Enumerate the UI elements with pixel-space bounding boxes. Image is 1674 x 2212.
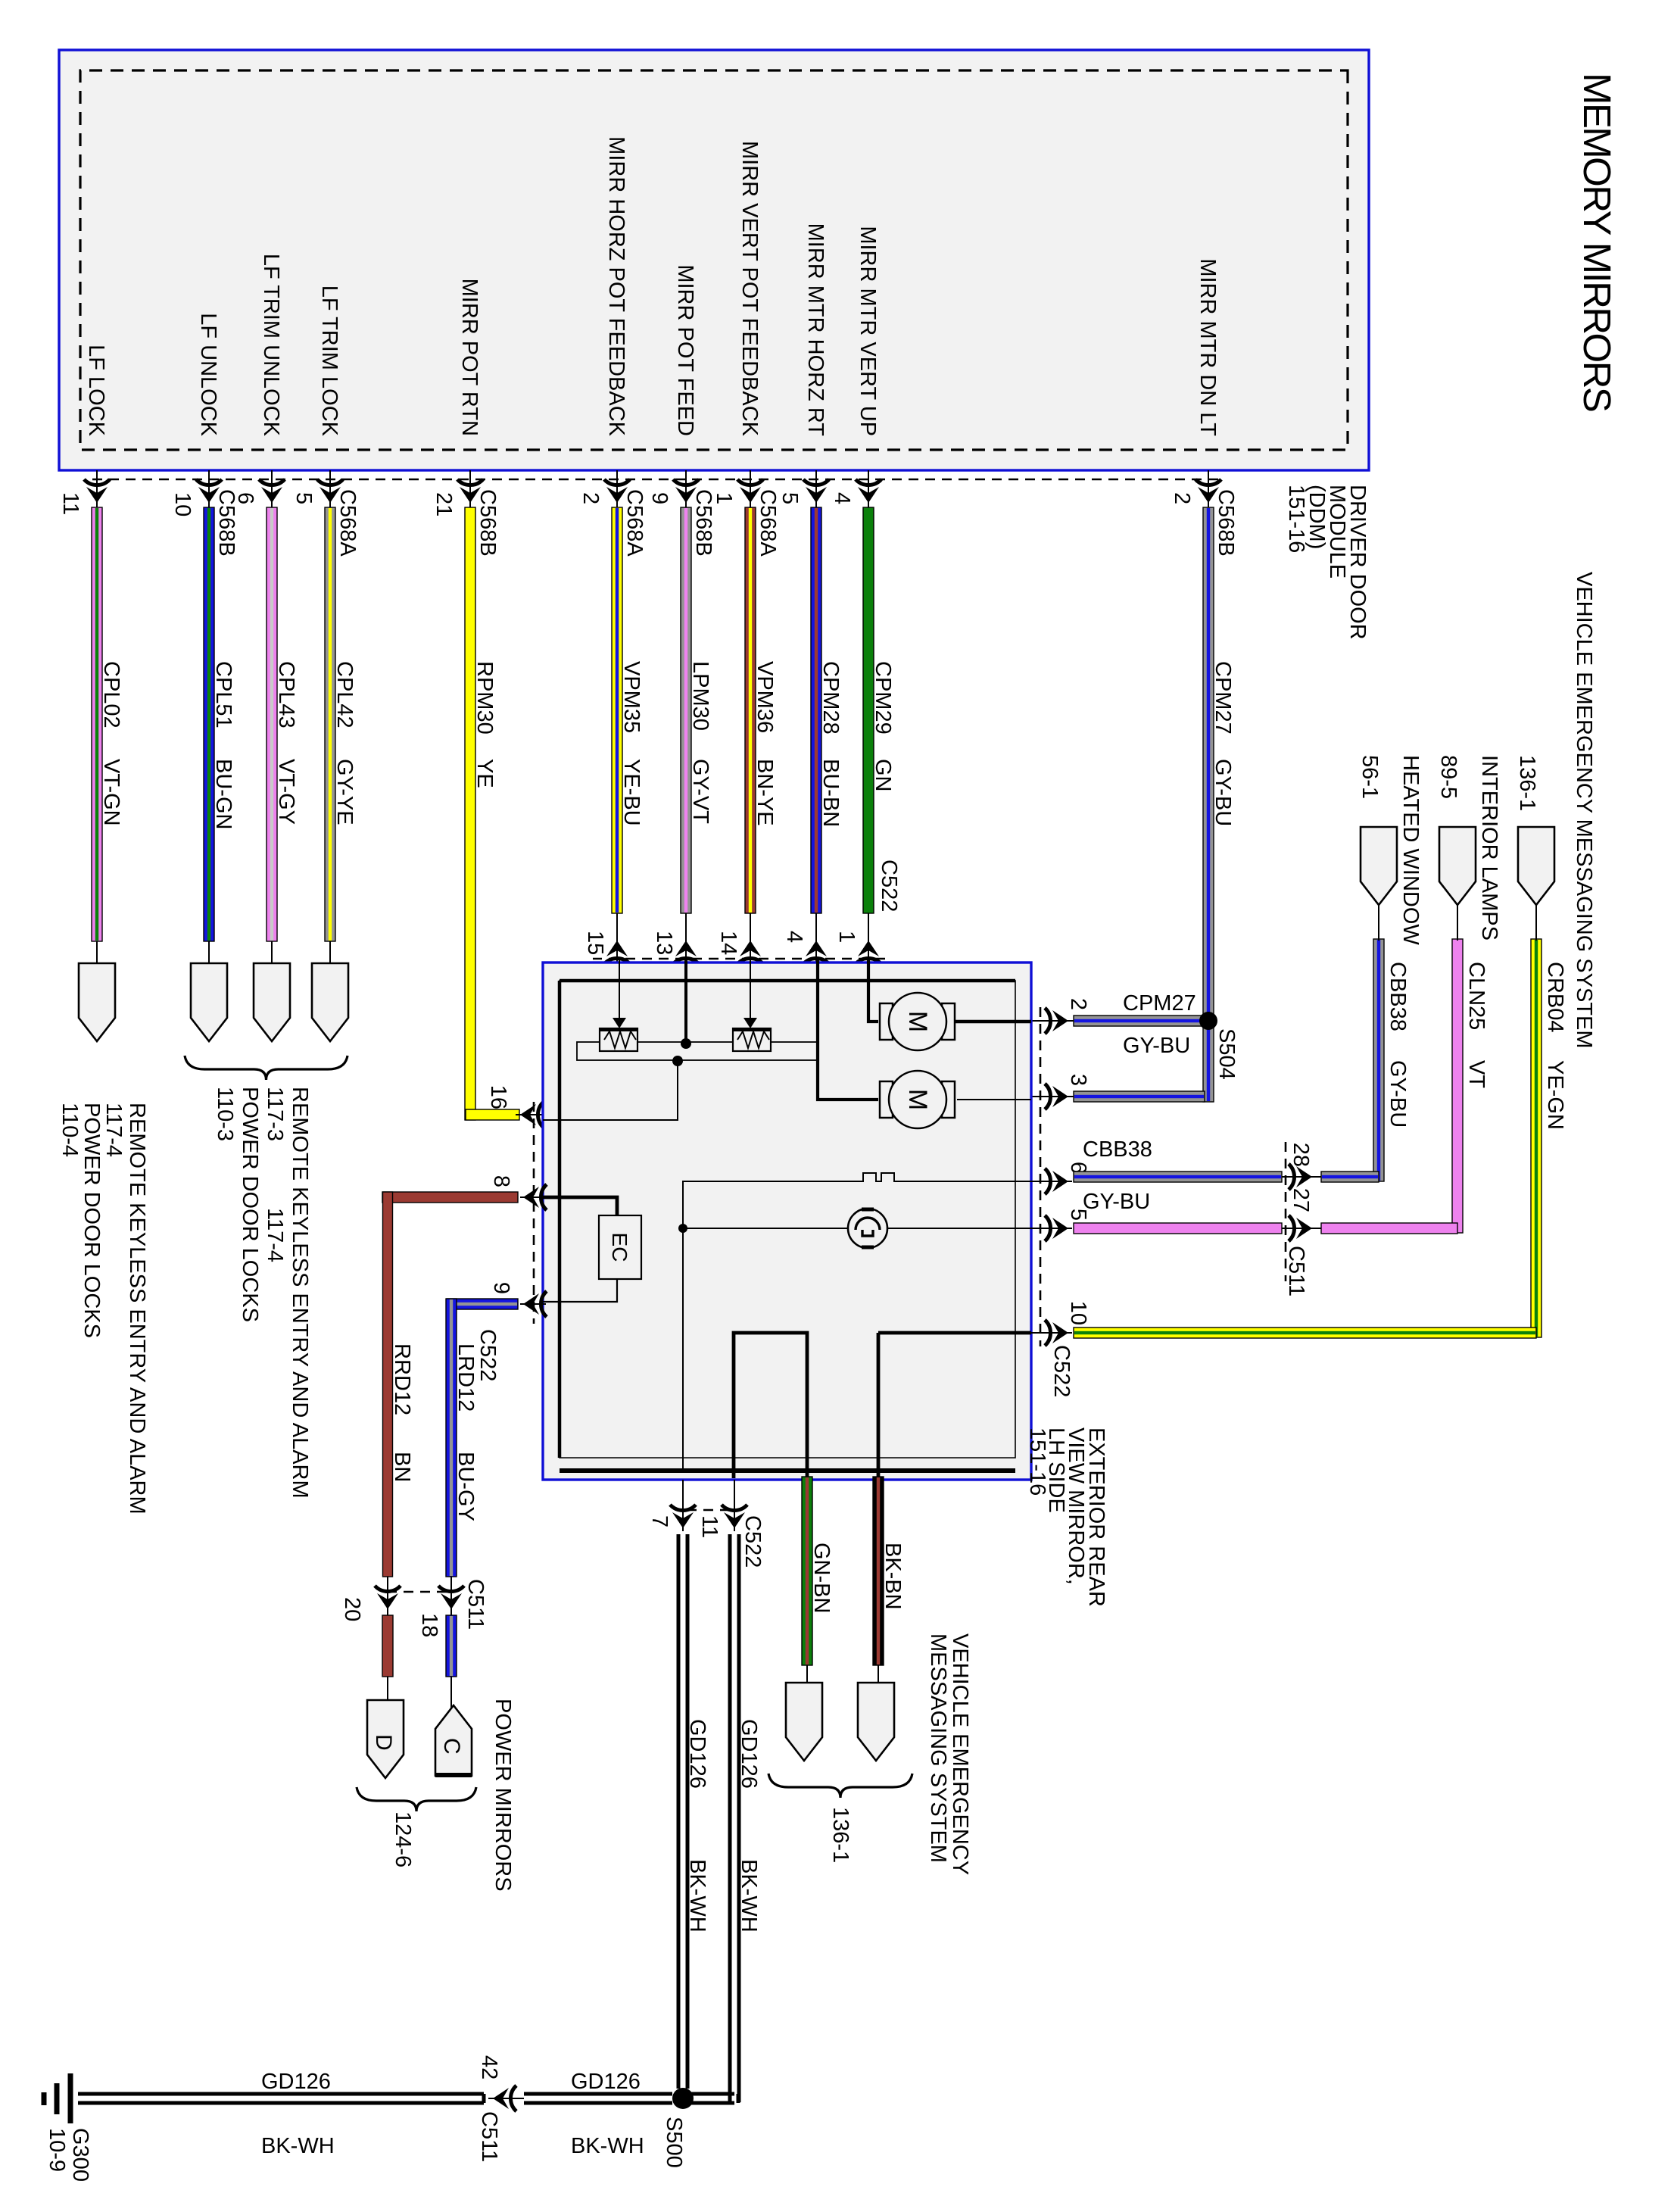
svg-text:GN-BN: GN-BN xyxy=(809,1543,834,1613)
svg-text:117-4: 117-4 xyxy=(101,1103,126,1157)
wire GD126 BK-WH from pin 7 to S500 xyxy=(686,1534,690,2089)
wire CBB38 GY-BU (heated window to mirror pin 6) xyxy=(1074,939,1384,1190)
svg-text:D: D xyxy=(371,1734,396,1751)
resistor R2 (horz pot) xyxy=(733,1028,771,1051)
mirror pin 8 arrow xyxy=(520,1196,543,1198)
DDM pin 5 (LF TRIM LOCK) xyxy=(291,285,360,557)
svg-text:REMOTE KEYLESS ENTRY AND ALARM: REMOTE KEYLESS ENTRY AND ALARM xyxy=(125,1103,149,1515)
svg-text:15: 15 xyxy=(583,931,607,955)
splice S500 xyxy=(672,2088,694,2109)
svg-text:GY-BU: GY-BU xyxy=(1386,1060,1410,1128)
svg-text:42: 42 xyxy=(477,2055,501,2079)
connector C xyxy=(435,1705,472,1776)
junction lamp to ground line xyxy=(678,1224,687,1233)
svg-text:VT-GY: VT-GY xyxy=(274,759,298,825)
svg-text:C568B: C568B xyxy=(691,489,715,557)
svg-text:2: 2 xyxy=(1170,492,1194,504)
VEMS connector terminal (BK-BN) xyxy=(858,1683,894,1761)
motor M (vert) xyxy=(880,993,955,1050)
svg-text:CPL42: CPL42 xyxy=(332,661,357,728)
connector terminal for CPL51 xyxy=(191,963,227,1041)
C511 break arrow on GD126 xyxy=(488,2098,524,2099)
svg-text:CBB38: CBB38 xyxy=(1083,1137,1152,1162)
svg-text:20: 20 xyxy=(340,1597,364,1621)
wire CPL43 VT-GY xyxy=(267,507,298,963)
connector D xyxy=(367,1700,404,1778)
wire CPL42 GY-YE xyxy=(325,507,357,963)
DDM pin 21 (MIRR POT RTN) xyxy=(432,279,500,557)
svg-text:CLN25: CLN25 xyxy=(1464,962,1489,1030)
heater element wire (pin 6) with element symbol xyxy=(683,1173,1031,1471)
svg-text:BN: BN xyxy=(390,1452,414,1482)
svg-text:8: 8 xyxy=(489,1175,513,1187)
wire VPM36 BN-YE (DDM to mirror pin 14) xyxy=(716,507,777,964)
wire CPM29 GN (DDM to mirror pin 1) xyxy=(834,507,895,964)
driver door module DDM box xyxy=(59,50,1369,470)
motor1 feed wire from pin 1 row xyxy=(868,959,878,1022)
svg-text:BU-BN: BU-BN xyxy=(818,759,843,827)
pot return wire (pin 16) xyxy=(543,1061,678,1120)
mirror pin 7 arrow xyxy=(682,1480,684,1531)
EC return wire (pin 9) xyxy=(543,1279,617,1302)
DDM pin 6 (LF TRIM UNLOCK) xyxy=(233,254,285,515)
wire LPM30 GY-VT (DDM to mirror pin 13) xyxy=(652,507,712,964)
brace power mirrors xyxy=(357,1787,476,1811)
svg-text:18: 18 xyxy=(417,1613,441,1637)
svg-text:CPM27: CPM27 xyxy=(1123,991,1196,1016)
svg-text:10: 10 xyxy=(1066,1301,1090,1325)
DDM pin 1 (MIRR VERT POT FEEDBACK) xyxy=(712,141,780,557)
svg-text:CPL43: CPL43 xyxy=(274,661,298,728)
wiper arrow into R2 xyxy=(750,959,751,1022)
brace for power door locks connectors xyxy=(185,1056,348,1080)
C522 dashed line at mirror bottom edge xyxy=(533,1102,535,1324)
svg-text:136-1: 136-1 xyxy=(1515,755,1539,811)
C522 dashed line at mirror top edge xyxy=(1040,1007,1042,1346)
GD126 BK-WH from C511 to ground G300 xyxy=(78,2092,484,2096)
svg-text:5: 5 xyxy=(291,492,316,504)
svg-text:MIRR POT RTN: MIRR POT RTN xyxy=(457,279,482,436)
svg-text:POWER DOOR LOCKS: POWER DOOR LOCKS xyxy=(79,1103,104,1338)
splice S504 xyxy=(1199,1012,1217,1030)
svg-text:MIRR POT FEED: MIRR POT FEED xyxy=(673,264,697,436)
svg-text:13: 13 xyxy=(652,931,676,955)
svg-text:C568A: C568A xyxy=(622,489,647,557)
DDM pin 10 (LF UNLOCK) xyxy=(170,313,238,556)
svg-text:LRD12: LRD12 xyxy=(454,1343,478,1412)
motor2 feed wire from pin 4 row xyxy=(818,959,878,1100)
svg-text:VEHICLE EMERGENCY MESSAGING SY: VEHICLE EMERGENCY MESSAGING SYSTEM xyxy=(1572,572,1596,1049)
svg-text:C511: C511 xyxy=(1284,1246,1308,1296)
svg-text:117-3: 117-3 xyxy=(263,1087,287,1141)
svg-text:CRB04: CRB04 xyxy=(1543,962,1567,1033)
wire CPL02 VT-GN xyxy=(92,507,123,963)
svg-text:151-16: 151-16 xyxy=(1284,485,1308,553)
heater grid element top xyxy=(877,1333,881,1478)
svg-text:S500: S500 xyxy=(662,2117,686,2168)
connector terminal for CPL42 xyxy=(312,963,348,1041)
DDM pin 2 (MIRR HORZ POT FEEDBACK) xyxy=(578,136,647,557)
svg-text:151-16: 151-16 xyxy=(1025,1427,1049,1496)
motor2 to pin 3 wire xyxy=(957,1099,1031,1100)
wire VPM35 YE-BU (DDM to mirror pin 15) xyxy=(583,507,644,964)
svg-text:4: 4 xyxy=(782,931,806,943)
svg-text:C522: C522 xyxy=(1049,1345,1074,1397)
svg-text:INTERIOR LAMPS: INTERIOR LAMPS xyxy=(1477,755,1501,941)
svg-text:CPL02: CPL02 xyxy=(99,661,123,728)
svg-text:BU-GY: BU-GY xyxy=(454,1452,478,1521)
svg-text:MIRR HORZ POT FEEDBACK: MIRR HORZ POT FEEDBACK xyxy=(604,136,628,436)
exterior rear view mirror box xyxy=(543,962,1031,1480)
svg-text:MIRR MTR DN LT: MIRR MTR DN LT xyxy=(1195,258,1220,436)
motor1 to pin 2 wire xyxy=(955,1020,1031,1024)
svg-text:C522: C522 xyxy=(740,1515,765,1568)
svg-text:EC: EC xyxy=(608,1233,631,1262)
svg-text:GY-BU: GY-BU xyxy=(1123,1034,1190,1058)
svg-text:M: M xyxy=(903,1089,932,1110)
svg-text:124-6: 124-6 xyxy=(391,1811,415,1867)
svg-text:89-5: 89-5 xyxy=(1436,755,1460,799)
resistor R1 (vert pot) xyxy=(600,1028,637,1051)
svg-text:5: 5 xyxy=(778,492,802,504)
svg-text:56-1: 56-1 xyxy=(1358,755,1382,799)
svg-text:LF UNLOCK: LF UNLOCK xyxy=(196,313,220,436)
svg-text:10-9: 10-9 xyxy=(45,2128,69,2172)
brace VEMS xyxy=(768,1774,912,1798)
wire CPM27 GY-BU (DDM pin 2 to S504, mirror pins 2 and 3) xyxy=(1031,507,1235,1109)
lamp bulb (pin 5) xyxy=(886,1228,1031,1229)
mirror inner border xyxy=(560,981,1015,1458)
svg-text:YE-BU: YE-BU xyxy=(619,759,644,826)
svg-text:M: M xyxy=(903,1011,932,1032)
svg-text:28: 28 xyxy=(1289,1143,1313,1167)
svg-text:C568B: C568B xyxy=(475,489,500,557)
svg-text:BK-WH: BK-WH xyxy=(737,1859,761,1933)
DDM inner dashed border xyxy=(80,70,1348,450)
GD126 BK-WH down from S500 to C511 xyxy=(524,2092,672,2096)
wire RRD12 BN (mirror pin 8 to power mirrors D) xyxy=(375,1192,518,1700)
DDM label DRIVER DOOR MODULE (DDM) 151-16 xyxy=(1284,485,1370,640)
svg-text:YE: YE xyxy=(472,759,497,788)
mirror pin 6 arrow xyxy=(1031,1181,1072,1182)
wire CLN25 VT (interior lamps to mirror pin 5) xyxy=(1074,939,1463,1241)
wiper arrow into R1 xyxy=(619,959,620,1022)
svg-text:MIRR MTR VERT UP: MIRR MTR VERT UP xyxy=(856,226,880,436)
svg-text:HEATED WINDOW: HEATED WINDOW xyxy=(1398,755,1423,945)
pot feed wire (pin 13) xyxy=(684,959,687,1044)
ground G300 symbol xyxy=(68,2073,73,2123)
svg-text:MIRR VERT POT FEEDBACK: MIRR VERT POT FEEDBACK xyxy=(737,141,762,437)
svg-text:10: 10 xyxy=(170,492,195,516)
motor M (horz) xyxy=(880,1071,955,1128)
svg-text:CPL51: CPL51 xyxy=(211,661,235,728)
wire GD126 BK-WH from pin 11 to S500 xyxy=(737,1534,741,2102)
mirror pin 11 arrow xyxy=(734,1480,735,1531)
svg-text:LF TRIM UNLOCK: LF TRIM UNLOCK xyxy=(259,254,283,437)
C522 dashed connector line at mirror left edge xyxy=(593,958,885,960)
svg-text:MESSAGING SYSTEM: MESSAGING SYSTEM xyxy=(926,1633,950,1863)
svg-text:MEMORY MIRRORS: MEMORY MIRRORS xyxy=(1576,73,1619,411)
svg-text:C568A: C568A xyxy=(756,489,780,557)
svg-text:2: 2 xyxy=(1066,998,1090,1010)
svg-text:MIRR MTR HORZ RT: MIRR MTR HORZ RT xyxy=(803,223,828,437)
wire LRD12 BU-GY (mirror pin 9 to power mirrors C) xyxy=(438,1299,518,1708)
svg-text:C568A: C568A xyxy=(335,489,360,557)
svg-text:136-1: 136-1 xyxy=(828,1807,853,1863)
mirror pin 10 arrow xyxy=(1031,1332,1072,1334)
wire CRB04 YE-GN (VEMS to mirror pin 10) xyxy=(1074,939,1542,1338)
C511 dashed line between RRD12 and LRD12 breaks xyxy=(392,1591,447,1593)
svg-text:LF LOCK: LF LOCK xyxy=(84,345,108,437)
svg-text:GY-VT: GY-VT xyxy=(688,759,712,824)
svg-text:117-4: 117-4 xyxy=(263,1208,287,1262)
svg-text:BN-YE: BN-YE xyxy=(753,759,777,826)
connector terminal for CPL43 xyxy=(254,963,290,1041)
svg-text:POWER MIRRORS: POWER MIRRORS xyxy=(491,1699,515,1892)
svg-text:VT: VT xyxy=(1464,1060,1489,1088)
svg-text:BK-WH: BK-WH xyxy=(261,2134,335,2158)
svg-text:GD126: GD126 xyxy=(737,1719,761,1789)
svg-text:GD126: GD126 xyxy=(261,2070,331,2094)
svg-text:C568B: C568B xyxy=(1214,489,1238,557)
svg-text:4: 4 xyxy=(830,492,854,504)
svg-text:CPM27: CPM27 xyxy=(1211,661,1235,735)
svg-text:1: 1 xyxy=(834,931,859,943)
DDM pin 2 (MIRR MTR DN LT) xyxy=(1170,258,1238,556)
svg-text:GY-BU: GY-BU xyxy=(1211,759,1235,826)
svg-text:9: 9 xyxy=(489,1282,513,1294)
svg-text:LPM30: LPM30 xyxy=(688,661,712,731)
svg-text:REMOTE KEYLESS ENTRY AND ALARM: REMOTE KEYLESS ENTRY AND ALARM xyxy=(288,1087,312,1499)
svg-text:11: 11 xyxy=(697,1515,722,1538)
svg-text:BU-GN: BU-GN xyxy=(211,759,235,829)
svg-text:11: 11 xyxy=(58,492,83,515)
label block REMOTE KEYLESS ENTRY AND ALARM 117-4 POWER DOOR LOCKS 110-4 xyxy=(58,1103,149,1515)
svg-text:RRD12: RRD12 xyxy=(390,1343,414,1415)
svg-text:C568B: C568B xyxy=(214,489,238,557)
svg-text:C: C xyxy=(439,1738,464,1755)
svg-text:CBB38: CBB38 xyxy=(1386,962,1410,1031)
wire GN-BN (mirror to VEMS) xyxy=(802,1477,812,1665)
mirror label EXTERIOR REAR VIEW MIRROR LH SIDE 151-16 xyxy=(1025,1427,1108,1607)
svg-text:POWER DOOR LOCKS: POWER DOOR LOCKS xyxy=(238,1087,262,1322)
wire CPM28 BU-BN (DDM to mirror pin 4) xyxy=(782,507,843,964)
DDM pin 11 (LF LOCK) xyxy=(58,345,110,515)
svg-text:BK-WH: BK-WH xyxy=(685,1859,709,1933)
svg-text:27: 27 xyxy=(1289,1188,1313,1212)
svg-text:3: 3 xyxy=(1066,1074,1090,1086)
pin 10 heater feed line xyxy=(878,1331,1031,1335)
svg-text:110-4: 110-4 xyxy=(58,1103,82,1157)
svg-text:C511: C511 xyxy=(463,1579,488,1630)
svg-text:BK-BN: BK-BN xyxy=(881,1543,905,1610)
svg-text:VPM36: VPM36 xyxy=(753,661,777,733)
connector terminal for CPL02 xyxy=(79,963,115,1041)
svg-text:VT-GN: VT-GN xyxy=(99,759,123,826)
svg-text:BK-WH: BK-WH xyxy=(571,2134,644,2158)
svg-text:LF TRIM LOCK: LF TRIM LOCK xyxy=(317,285,341,437)
wire CPL51 BU-GN xyxy=(204,507,235,963)
svg-text:7: 7 xyxy=(647,1515,672,1527)
svg-text:21: 21 xyxy=(432,492,456,516)
svg-text:C522: C522 xyxy=(877,860,901,912)
wire BK-BN (mirror to VEMS) xyxy=(873,1477,884,1665)
wire RPM30 YE (DDM pin 21 to mirror pin 16) xyxy=(465,507,544,1128)
EC feed wire (pin 8) xyxy=(543,1197,617,1215)
svg-text:GN: GN xyxy=(871,759,895,792)
EC element box xyxy=(599,1215,641,1279)
dashed C522 between pins 7 and 11 xyxy=(687,1509,730,1512)
heater grid element bottom xyxy=(734,1333,807,1478)
mirror pin 5 arrow xyxy=(1031,1228,1072,1229)
svg-text:GY-YE: GY-YE xyxy=(332,759,357,825)
svg-text:GD126: GD126 xyxy=(685,1719,709,1789)
DDM pin 9 (MIRR POT FEED) xyxy=(647,264,715,556)
svg-text:YE-GN: YE-GN xyxy=(1543,1060,1567,1130)
svg-text:VPM35: VPM35 xyxy=(619,661,644,733)
svg-text:VEHICLE EMERGENCY: VEHICLE EMERGENCY xyxy=(948,1633,972,1875)
svg-text:G300: G300 xyxy=(68,2128,92,2182)
svg-text:RPM30: RPM30 xyxy=(472,661,497,735)
svg-text:14: 14 xyxy=(716,931,740,955)
svg-text:CPM28: CPM28 xyxy=(818,661,843,735)
mirror pin 9 arrow xyxy=(520,1303,543,1305)
svg-text:GD126: GD126 xyxy=(571,2070,641,2094)
label block REMOTE KEYLESS ENTRY AND ALARM 117-3 117-4 POWER DOOR LOCKS 110-3 xyxy=(213,1087,312,1499)
svg-text:C511: C511 xyxy=(477,2111,501,2162)
svg-text:16: 16 xyxy=(486,1085,510,1109)
svg-text:9: 9 xyxy=(647,492,672,504)
svg-text:S504: S504 xyxy=(1214,1028,1239,1080)
potentiometer track bar xyxy=(577,1042,818,1060)
svg-text:C522: C522 xyxy=(475,1329,500,1381)
svg-text:110-3: 110-3 xyxy=(213,1087,237,1141)
in-line connector C511 dashed line (top) xyxy=(1285,1142,1287,1281)
svg-text:GY-BU: GY-BU xyxy=(1083,1190,1150,1214)
svg-text:2: 2 xyxy=(578,492,603,504)
DDM pin 5 (MIRR MTR HORZ RT) xyxy=(778,223,829,515)
svg-text:CPM29: CPM29 xyxy=(871,661,895,735)
DDM pin 4 (MIRR MTR VERT UP) xyxy=(830,226,881,515)
VEMS connector terminal (GN-BN) xyxy=(786,1683,822,1761)
connector C568 dashed line at DDM pins xyxy=(90,479,1218,481)
